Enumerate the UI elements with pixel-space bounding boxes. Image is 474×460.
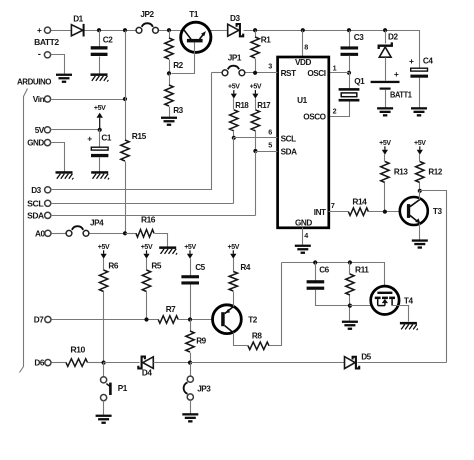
ground R16 (159, 246, 177, 254)
svg-text:R5: R5 (151, 262, 161, 271)
svg-text:+5V: +5V (250, 84, 262, 91)
svg-text:4: 4 (304, 231, 308, 240)
svg-text:6: 6 (268, 127, 272, 136)
node R11 top junction (348, 260, 352, 264)
svg-text:JP4: JP4 (90, 219, 104, 228)
wire SDA pin 5 (256, 151, 278, 153)
svg-text:2: 2 (333, 106, 337, 115)
svg-text:C4: C4 (423, 57, 433, 66)
wire D6 row to D5 (191, 362, 345, 364)
svg-text:R18: R18 (235, 101, 249, 110)
wire INT pin 7 (329, 211, 349, 213)
node rail junction at D2 (383, 28, 387, 32)
svg-text:Q1: Q1 (354, 77, 365, 86)
svg-text:3: 3 (268, 62, 272, 71)
svg-text:JP2: JP2 (140, 10, 154, 19)
svg-text:+5V: +5V (379, 140, 391, 147)
svg-text:D7: D7 (34, 316, 44, 325)
op-amp U1 body (IC box) (278, 57, 329, 228)
ground T4 (400, 322, 418, 330)
svg-text:C2: C2 (103, 35, 113, 44)
svg-text:+: + (409, 56, 414, 66)
ground C2 (91, 73, 109, 81)
svg-text:OSCI: OSCI (307, 69, 325, 78)
svg-text:C3: C3 (354, 33, 364, 42)
svg-text:VDD: VDD (295, 58, 311, 67)
svg-text:+: + (37, 25, 42, 35)
svg-text:INT: INT (314, 208, 326, 217)
wire JP4 to R15 node (90, 233, 126, 235)
svg-text:+5V: +5V (414, 140, 426, 147)
node C6 R11 T4 junction (348, 304, 352, 308)
ground KP1 (96, 415, 112, 424)
node R13 T3 base junction (383, 210, 387, 214)
svg-text:R14: R14 (352, 198, 367, 207)
svg-text:D5: D5 (361, 353, 371, 362)
svg-text:5: 5 (268, 141, 272, 150)
node A0 R15 R16 junction (123, 231, 127, 235)
svg-text:R3: R3 (173, 106, 183, 115)
wire R11 junction to T4 source (350, 305, 378, 307)
node rail junction at R1 (253, 28, 257, 32)
node R17 SDA junction (253, 149, 257, 153)
ground GND pin (56, 171, 74, 179)
svg-text:T3: T3 (433, 207, 443, 216)
node 5V C1 junction (98, 128, 102, 132)
node R5 D7 junction (144, 317, 148, 321)
svg-text:7: 7 (331, 201, 335, 210)
wire A0 to JP4 (52, 233, 66, 235)
jumper JP3 (190, 363, 192, 377)
svg-text:D3: D3 (31, 186, 41, 195)
node R6 R10 KP1 junction (102, 361, 106, 365)
ground U1 GND (295, 245, 311, 254)
svg-text:P1: P1 (118, 384, 128, 393)
svg-text:C6: C6 (319, 266, 329, 275)
svg-text:D6: D6 (34, 359, 44, 368)
node rail junction at R2 (167, 28, 171, 32)
svg-text:+: + (87, 134, 92, 144)
wire GND pin 4 (302, 228, 304, 245)
svg-text:ARDUINO: ARDUINO (17, 77, 52, 86)
node rail junction at VDD (301, 28, 305, 32)
svg-text:R4: R4 (240, 263, 250, 272)
wire SCL pin 6 (234, 137, 278, 139)
ground JP3 (182, 413, 198, 422)
svg-text:-: - (38, 49, 41, 60)
wire SCL row (51, 203, 234, 205)
node Vin R15 junction (123, 97, 127, 101)
wire 5V row (51, 129, 100, 131)
svg-text:R2: R2 (173, 61, 183, 70)
wire T4 gate row (282, 263, 385, 292)
svg-text:GND: GND (295, 219, 312, 228)
svg-text:R8: R8 (252, 331, 262, 340)
svg-text:JP3: JP3 (197, 384, 211, 393)
wire SDA row (51, 215, 256, 217)
wire D6 row to D4 (104, 362, 140, 364)
svg-text:+5V: +5V (98, 244, 110, 251)
svg-text:T2: T2 (248, 315, 258, 324)
wire BATT2 minus to ground (51, 55, 65, 74)
svg-text:8: 8 (304, 42, 308, 51)
svg-text:BATT2: BATT2 (34, 38, 59, 47)
svg-text:R12: R12 (428, 168, 442, 177)
svg-text:SCL: SCL (281, 135, 296, 144)
ground C4 (411, 107, 427, 116)
svg-text:+5V: +5V (141, 244, 153, 251)
node OSCI C3 Q1 junction (347, 71, 351, 75)
svg-text:C5: C5 (195, 263, 205, 272)
svg-text:R1: R1 (261, 36, 271, 45)
svg-text:C1: C1 (101, 133, 111, 142)
svg-text:SDA: SDA (281, 148, 297, 157)
wire VDD pin 8 (302, 31, 304, 58)
node RST R1 junction (253, 71, 257, 75)
wire D7 row (52, 319, 159, 321)
svg-text:+5V: +5V (228, 84, 240, 91)
svg-text:RST: RST (281, 69, 296, 78)
wire OSCI pin 1 to crystal column (329, 72, 350, 74)
pushbutton KP1 (103, 363, 105, 377)
svg-text:R7: R7 (166, 305, 176, 314)
svg-text:GND: GND (27, 139, 44, 148)
wire GND row (51, 143, 65, 172)
svg-text:A0: A0 (35, 229, 45, 238)
svg-text:Vin: Vin (33, 95, 45, 104)
svg-text:+: + (394, 69, 399, 79)
wire SCL column down (233, 138, 235, 204)
ground T3 (412, 239, 428, 248)
svg-text:SDA: SDA (27, 211, 44, 220)
svg-text:D1: D1 (73, 15, 83, 24)
wire R15 column upper (125, 31, 127, 141)
svg-text:D2: D2 (388, 33, 398, 42)
svg-text:OSCO: OSCO (303, 113, 326, 122)
node rail junction to R15 column (123, 28, 127, 32)
svg-text:5V: 5V (35, 126, 45, 135)
node battery rail junction at C2 (97, 28, 101, 32)
svg-text:R13: R13 (394, 168, 408, 177)
svg-text:D3: D3 (230, 14, 240, 23)
wire RST pin 3 (246, 72, 278, 74)
svg-text:T4: T4 (404, 296, 414, 305)
svg-text:R15: R15 (132, 132, 147, 141)
node C6 top junction (313, 260, 317, 264)
svg-text:BATT1: BATT1 (390, 90, 412, 99)
node C5 R9 D7 junction (188, 317, 192, 321)
svg-text:R6: R6 (108, 262, 118, 271)
svg-text:+5V: +5V (184, 244, 196, 251)
svg-text:SCL: SCL (27, 199, 43, 208)
ground R11 (342, 321, 358, 330)
wire Vin row (51, 99, 126, 101)
svg-text:+5V: +5V (227, 244, 239, 251)
wire SDA column down (255, 152, 257, 216)
wire ARDUINO connector border (20, 89, 28, 373)
ground BATT2 (56, 74, 72, 83)
ground R3 (161, 117, 177, 126)
ground C1 (91, 171, 109, 179)
svg-text:R17: R17 (257, 101, 271, 110)
svg-text:R11: R11 (355, 266, 369, 275)
svg-text:JP1: JP1 (228, 54, 242, 63)
ground BATT1 (377, 107, 393, 116)
wire D3 row to JP1 (51, 73, 212, 190)
node R2 R3 T1-base junction (167, 71, 171, 75)
wire top rail from BATT2 plus to C4 corner (51, 30, 72, 32)
node rail junction at C3 (347, 28, 351, 32)
svg-text:U1: U1 (297, 96, 307, 105)
svg-text:T1: T1 (189, 10, 199, 19)
svg-text:1: 1 (333, 63, 337, 72)
svg-text:R9: R9 (196, 337, 206, 346)
wire T3 collector to right column (420, 191, 447, 363)
svg-text:R10: R10 (70, 345, 85, 354)
node R9 D4 JP3 junction (188, 361, 192, 365)
svg-text:D4: D4 (142, 369, 152, 378)
svg-text:R16: R16 (141, 216, 156, 225)
node T3 collector junction (418, 189, 422, 193)
svg-text:+5V: +5V (94, 105, 106, 112)
node R18 SCL junction (232, 136, 236, 140)
